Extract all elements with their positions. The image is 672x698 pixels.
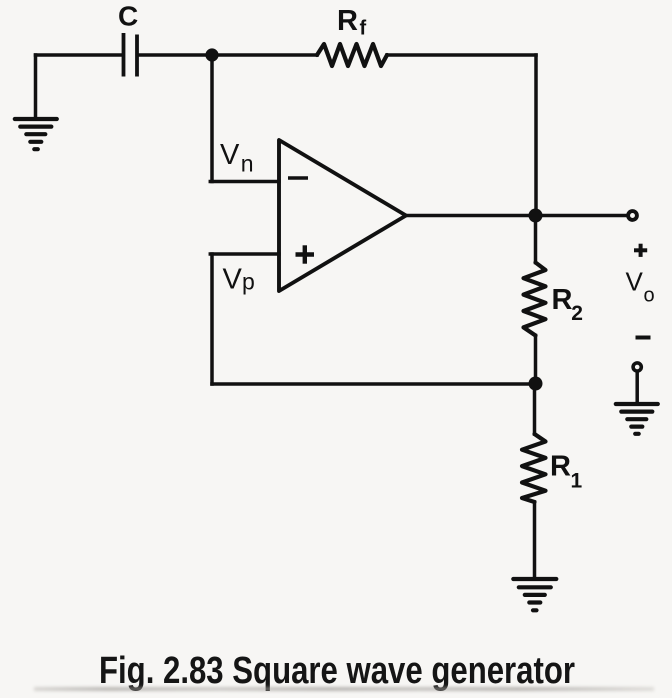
svg-text:n: n xyxy=(241,151,254,177)
op-amp plus input sign xyxy=(296,245,315,263)
wire: output node to R2 top lead xyxy=(534,216,538,263)
wire: R2 bottom lead to divider node xyxy=(534,336,538,385)
svg-text:1: 1 xyxy=(571,470,583,493)
capacitor C plates xyxy=(124,33,138,77)
Vo return terminal ring xyxy=(633,363,641,371)
wire: capacitor to Rf xyxy=(138,53,317,57)
left ground symbol xyxy=(15,119,57,149)
wire: divider node to R1 top lead xyxy=(533,384,537,434)
output label Vo xyxy=(626,267,655,307)
right ground symbol (Vo return) xyxy=(616,404,658,434)
resistor R2 label xyxy=(552,284,583,325)
svg-text:f: f xyxy=(360,18,367,40)
svg-text:p: p xyxy=(242,268,255,294)
wire: top net, left segment to capacitor xyxy=(36,53,123,57)
svg-text:2: 2 xyxy=(571,302,583,325)
node A junction dot (C / Rf / Vn) xyxy=(205,48,218,61)
wire: Vp vertical feedback drop xyxy=(210,254,214,384)
resistor R2 zigzag xyxy=(524,263,546,336)
wire: node A drop to inverting input xyxy=(210,55,214,182)
svg-text:R: R xyxy=(550,451,571,483)
output terminal ring xyxy=(628,211,637,220)
svg-text:V: V xyxy=(220,139,240,171)
scan artifact smudge line xyxy=(34,687,654,692)
output polarity minus sign xyxy=(636,336,651,340)
bottom ground symbol under R1 xyxy=(513,579,556,610)
node label Vp xyxy=(223,263,255,295)
wire: op-amp output to terminal xyxy=(406,214,627,218)
wire: bottom feedback horizontal to divider node xyxy=(212,382,536,386)
wire: Vo minus terminal to ground xyxy=(635,372,639,404)
node label Vn xyxy=(220,139,254,177)
wire: Rf to top-right corner xyxy=(387,53,536,57)
wire: Vn horizontal into op-amp minus input xyxy=(210,180,279,184)
wire: right vertical from Rf corner to output node xyxy=(534,55,538,216)
output node junction dot xyxy=(529,209,543,223)
svg-text:C: C xyxy=(118,1,138,32)
wire: R1 bottom lead to ground xyxy=(533,502,537,578)
resistor R1 label xyxy=(550,451,583,493)
svg-text:V: V xyxy=(626,267,644,297)
output polarity plus sign xyxy=(634,244,647,257)
svg-text:R: R xyxy=(552,284,573,316)
svg-text:V: V xyxy=(223,263,243,295)
resistor Rf label xyxy=(337,5,367,40)
wire: left ground drop xyxy=(34,55,38,118)
svg-text:o: o xyxy=(644,284,655,306)
svg-text:R: R xyxy=(337,5,358,37)
resistor R1 zigzag xyxy=(522,434,546,502)
op-amp triangle xyxy=(279,140,406,291)
divider node junction dot (R2 / R1 / Vp feedback) xyxy=(529,377,543,391)
op-amp minus input sign xyxy=(288,176,308,180)
resistor Rf zigzag xyxy=(317,44,387,66)
wire: Vp horizontal into op-amp plus input xyxy=(210,252,279,256)
